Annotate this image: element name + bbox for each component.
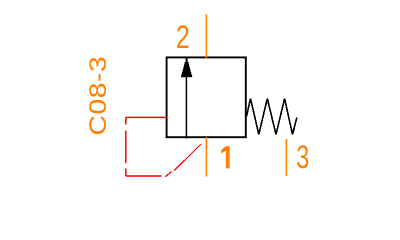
svg-text:3: 3 xyxy=(296,139,309,175)
svg-text:C08-3: C08-3 xyxy=(84,56,112,136)
svg-text:2: 2 xyxy=(176,19,190,55)
